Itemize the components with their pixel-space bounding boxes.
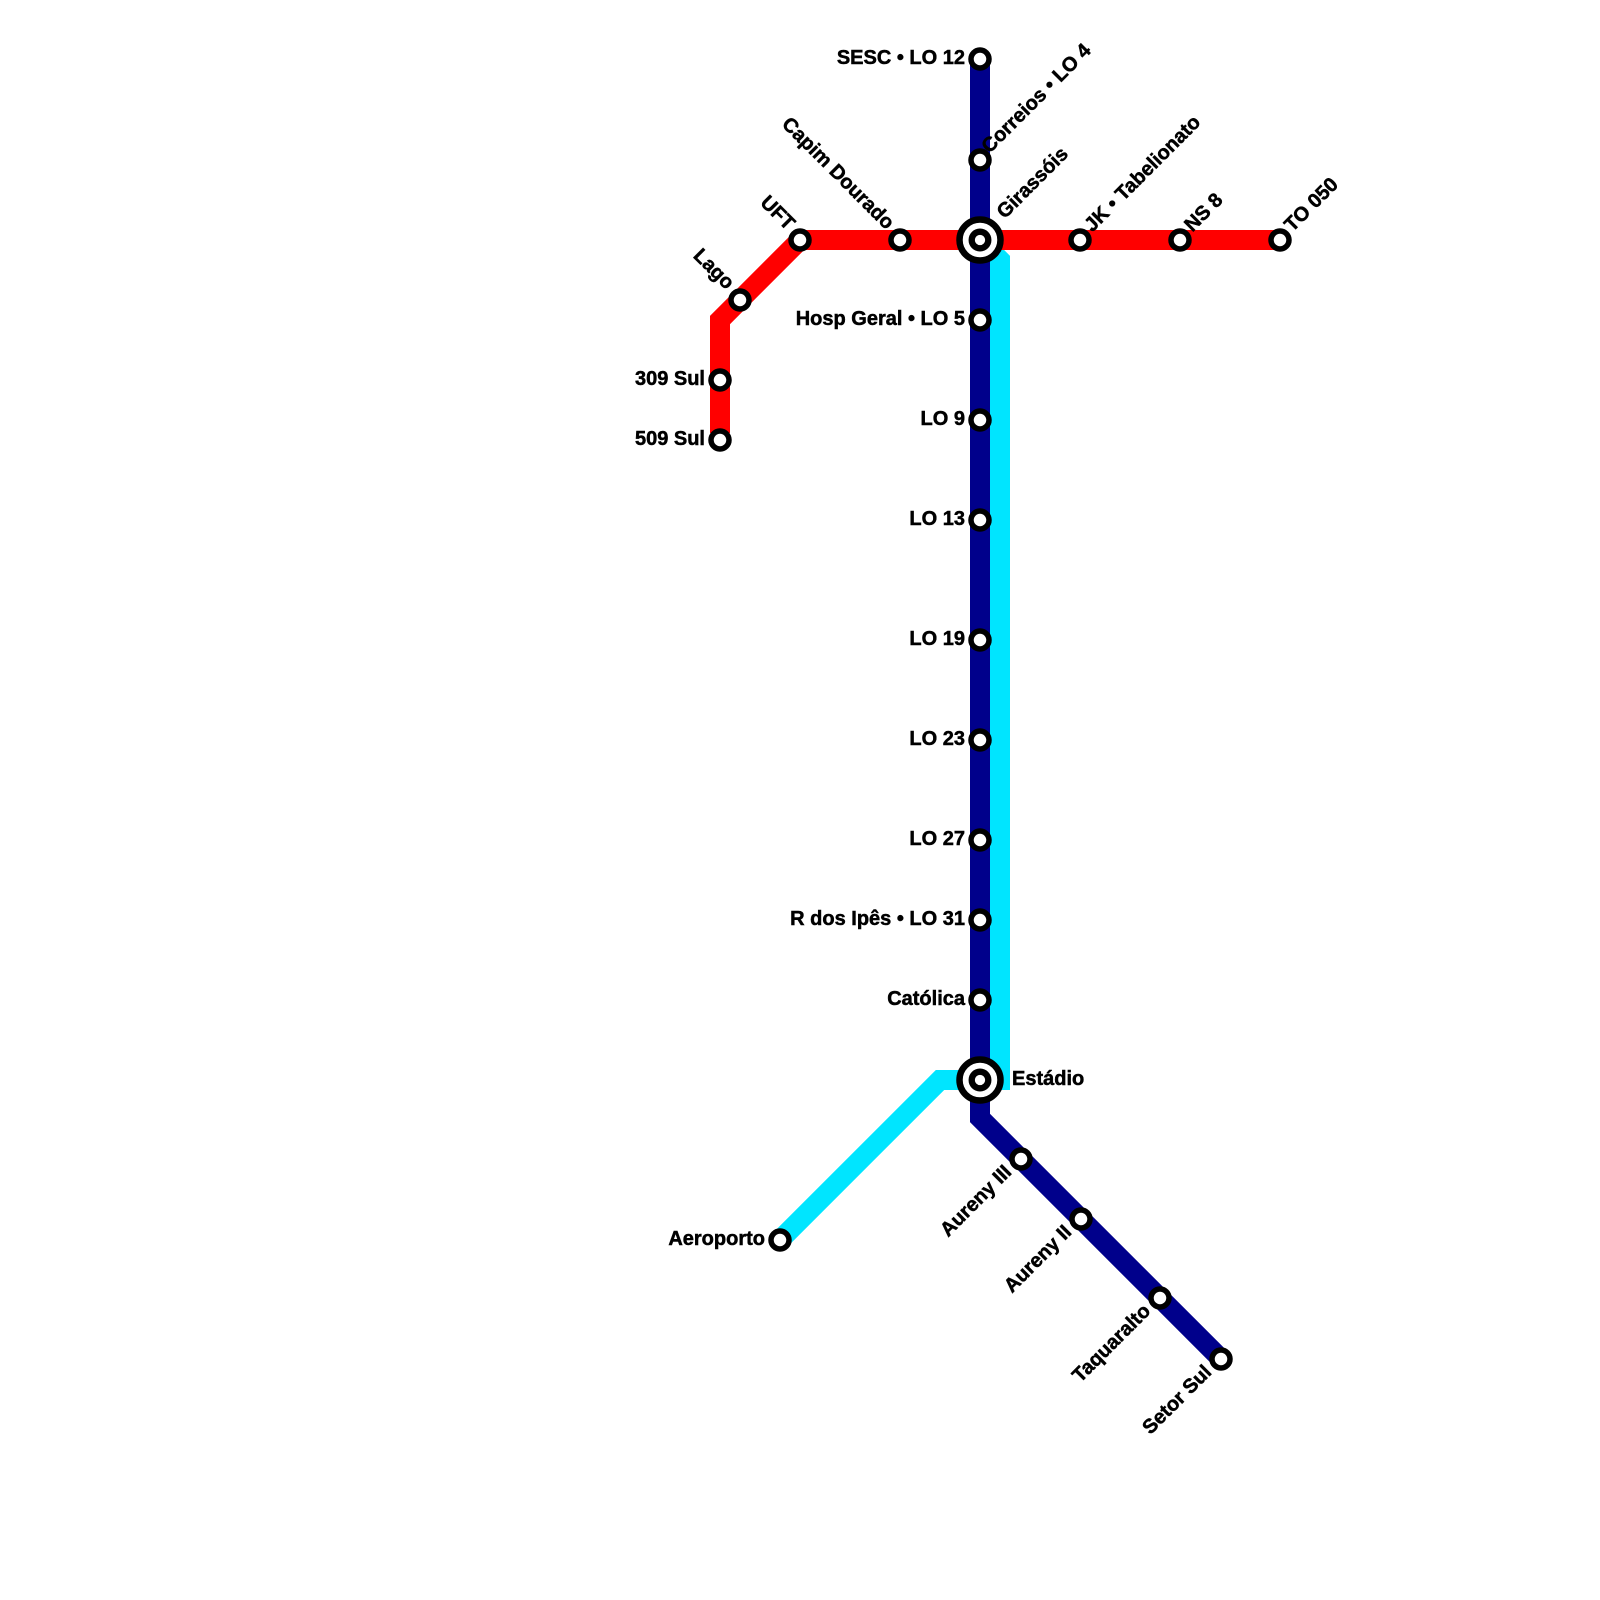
- station Aureny II: [1072, 1210, 1090, 1228]
- station Aureny III: [1012, 1150, 1030, 1168]
- svg-text:LO 27: LO 27: [909, 828, 965, 850]
- station Setor Sul: [1212, 1350, 1230, 1368]
- station R dos Ipês · LO 31: [971, 911, 989, 929]
- station TO 050: [1271, 231, 1289, 249]
- svg-text:R dos Ipês • LO 31: R dos Ipês • LO 31: [790, 908, 965, 930]
- station UFT: [791, 231, 809, 249]
- station LO 23: [971, 731, 989, 749]
- station JK · Tabelionato: [1071, 231, 1089, 249]
- station LO 9: [971, 411, 989, 429]
- svg-text:Hosp Geral • LO 5: Hosp Geral • LO 5: [796, 308, 965, 330]
- svg-text:LO 19: LO 19: [909, 628, 965, 650]
- svg-text:309 Sul: 309 Sul: [635, 368, 705, 390]
- svg-text:Católica: Católica: [887, 988, 966, 1010]
- svg-text:LO 9: LO 9: [921, 408, 965, 430]
- svg-text:LO 23: LO 23: [909, 728, 965, 750]
- station Hosp Geral · LO 5: [971, 311, 989, 329]
- station Capim Dourado: [891, 231, 909, 249]
- station LO 19: [971, 631, 989, 649]
- station Correios · LO 4: [971, 151, 989, 169]
- station LO 13: [971, 511, 989, 529]
- station Lago: [731, 291, 749, 309]
- svg-text:LO 13: LO 13: [909, 508, 965, 530]
- interchange Girassóis: [960, 220, 1001, 261]
- station Taquaralto: [1151, 1289, 1169, 1307]
- red line: [720, 240, 1280, 433]
- station SESC · LO 12: [971, 50, 989, 68]
- station LO 27: [971, 831, 989, 849]
- svg-text:509 Sul: 509 Sul: [635, 428, 705, 450]
- svg-text:Estádio: Estádio: [1012, 1068, 1084, 1090]
- cyan line Aeroporto branch: [780, 240, 1000, 1240]
- navy line: [980, 59, 1221, 1359]
- station Católica: [971, 991, 989, 1009]
- station NS 8: [1171, 231, 1189, 249]
- station Aeroporto: [771, 1231, 789, 1249]
- svg-text:Aeroporto: Aeroporto: [668, 1228, 765, 1250]
- station 309 Sul: [711, 371, 729, 389]
- svg-text:SESC • LO 12: SESC • LO 12: [837, 47, 965, 69]
- interchange Estádio: [960, 1060, 1001, 1101]
- station 509 Sul: [711, 431, 729, 449]
